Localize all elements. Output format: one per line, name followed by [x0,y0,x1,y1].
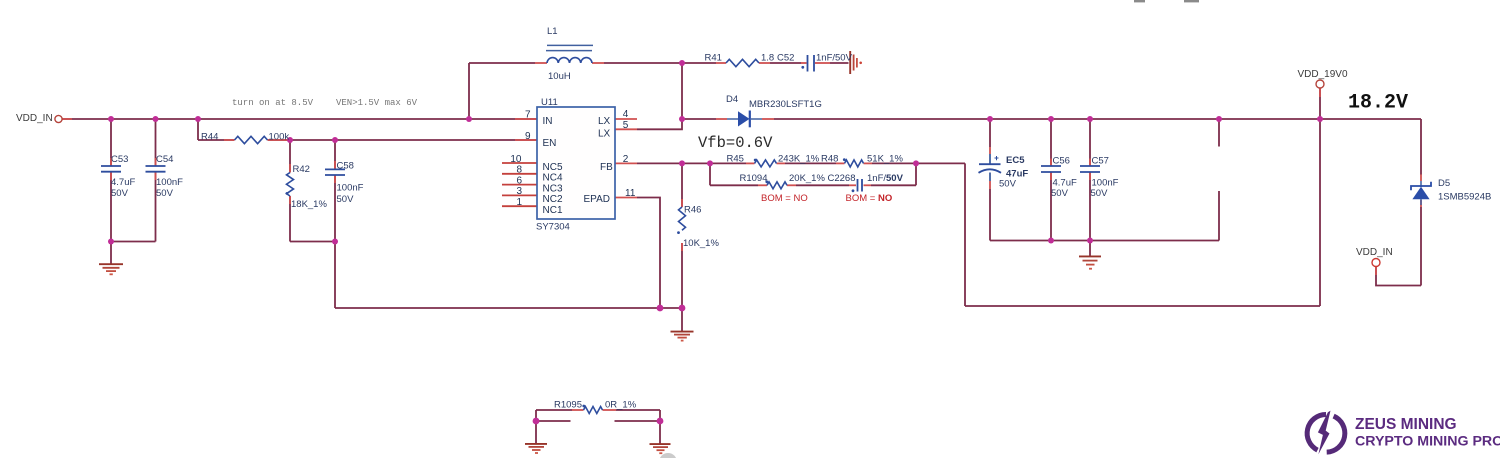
svg-text:Vfb=0.6V: Vfb=0.6V [698,134,773,152]
capacitor C52 (vertical plates) [807,55,809,72]
svg-text:R42: R42 [293,164,310,175]
diode D4 cathode bar [749,111,751,128]
svg-text:18.2V: 18.2V [1348,92,1408,115]
pin 9 EN stub [515,139,537,141]
wire output bottom rail [990,240,1219,242]
pin 3 NC2 stub [502,194,537,196]
wire C54 bottom lead [155,172,157,242]
resistor R1094 [767,182,787,189]
wire LX node to D4 anode [682,118,716,120]
wire feedback bottom run [965,305,1320,307]
svg-text:R44: R44 [201,132,218,143]
pin 10 NC5 stub [502,162,537,164]
wire C53-C54 bottom join [111,241,156,243]
svg-text:18K_1%: 18K_1% [291,199,327,210]
svg-text:7: 7 [525,110,531,121]
C57 lead stubs [1089,159,1091,166]
wire EPAD net horizontal [335,307,682,309]
svg-text:50V: 50V [111,188,129,199]
wire feedback drop [964,163,966,306]
R46 lead stubs [681,199,683,207]
R44 lead stubs [224,139,235,141]
pin 6 NC3 stub [502,184,537,186]
logo lightning bolt [1318,411,1331,455]
resistor R42 (vertical) [287,173,294,197]
wire LX pin5 jog [637,119,682,129]
wire R1094 branch drop [709,163,711,185]
wire R1095 right lead [616,409,660,411]
svg-text:6: 6 [516,175,522,186]
capacitor C2268 (vertical plates) [857,179,859,192]
svg-text:IN: IN [543,116,553,127]
zener D5 body [1412,187,1429,200]
wire C2268 right lead [871,184,916,186]
L1 lead stubs [535,62,547,64]
wire R44 left lead [198,139,235,141]
svg-text:4: 4 [623,109,629,120]
svg-text:11: 11 [625,188,636,199]
watermark arc bottom [659,453,677,458]
wire EC5 top lead [989,119,991,147]
op-amp? no: IC U11 SY7304 body [537,107,615,219]
D5 lead stubs [1420,175,1422,182]
svg-text:SY7304: SY7304 [536,222,570,233]
svg-text:R46: R46 [684,205,701,216]
logo Zeus Mining ring [1327,416,1345,452]
wire R1095 left lead [536,409,572,411]
svg-text:C54: C54 [156,154,173,165]
wire R44 to EN pin [268,139,538,141]
svg-text:R45: R45 [727,154,744,165]
pin-1 marker dots (blue) [286,66,855,408]
ground G3 (below C57) [1079,256,1101,268]
resistor R44 [235,136,268,143]
svg-text:8: 8 [516,165,522,176]
svg-text:R1094: R1094 [740,173,768,184]
wire L1 left [469,62,535,64]
ground G2 (below R46/EPAD net) [671,332,694,341]
wire EPAD pin run [637,198,660,309]
svg-text:BOM = NO: BOM = NO [761,193,808,204]
wire R42 top lead [289,140,291,173]
zener D5 leads [1420,181,1422,187]
svg-text:VDD_IN: VDD_IN [1356,247,1393,258]
svg-text:50V: 50V [999,179,1017,190]
R1095 lead stubs [572,409,584,411]
svg-text:0R_1%: 0R_1% [605,400,637,411]
wire main input rail VDD_IN to IC pin IN [62,118,537,120]
svg-text:1: 1 [516,197,522,208]
svg-text:4.7uF: 4.7uF [111,177,135,188]
EC5 polarity mark [995,157,999,159]
svg-text:EPAD: EPAD [584,194,611,205]
wire C54 top lead [155,119,157,166]
wire right gnd stub [615,420,661,422]
svg-text:50V: 50V [1051,188,1069,199]
svg-text:EN: EN [543,138,557,149]
wire ground stem mid [681,308,683,332]
svg-text:LX: LX [598,116,611,127]
ground G4 (R1095 left) [525,444,547,453]
wire R1095 left drop [535,410,537,444]
resistor R1095 [584,407,603,414]
svg-text:9: 9 [525,131,531,142]
D4 lead stubs [716,118,727,120]
diode D4 body [738,111,750,126]
wire D5 to VDD_IN port [1376,267,1421,286]
svg-text:R48: R48 [821,154,838,165]
svg-text:NC3: NC3 [543,183,563,194]
wire R1094 to C2268 [796,184,849,186]
pin 8 NC4 stub [502,173,537,175]
wire C53 top lead [110,119,112,166]
svg-text:50V: 50V [156,188,174,199]
port stub top right [1319,88,1321,97]
wire R41 to C52 [770,62,801,64]
svg-text:10K_1%: 10K_1% [683,238,719,249]
wire R42 bottom to C58 [290,241,335,243]
pin 2 FB stub [615,162,637,164]
svg-text:BOM = NO: BOM = NO [846,193,893,204]
diode D4 leads [727,118,738,120]
capacitor EC5 polarized [979,163,1001,165]
wire R45 to R48 [785,162,836,164]
wire C56 bottom lead [1050,172,1052,241]
R42 lead stubs [289,164,291,173]
C52 lead stubs [801,62,807,64]
wire R46 top lead [681,163,683,207]
svg-text:VDD_IN: VDD_IN [16,113,53,124]
port stub bottom right [1375,267,1377,276]
svg-text:1.8: 1.8 [761,53,774,64]
wire C57 bottom lead [1089,172,1091,241]
svg-text:U11: U11 [541,97,558,108]
wire D5 top lead [1420,119,1422,175]
ground G5 (R1095 right) [650,444,671,453]
wire L1 right to LX node [604,62,682,64]
wire R1094 left lead [710,184,758,186]
wire rail up to L1 [468,63,470,119]
pin 4 LX stub [615,118,637,120]
wire R46 bottom lead [681,243,683,308]
svg-text:51K_1%: 51K_1% [867,154,903,165]
wire EC5 bottom lead [989,189,991,241]
wire LX node vertical [681,63,683,119]
wire VDD_19V0 port stem [1319,88,1321,119]
R45 lead stubs [746,162,755,164]
wire left gnd stub [536,420,571,422]
svg-text:NC4: NC4 [543,173,563,184]
wire C56 top lead [1050,119,1052,166]
svg-text:turn on at 8.5V: turn on at 8.5V [232,98,314,108]
C53 lead stubs [110,158,112,165]
pin 11 EPAD stub [615,197,637,199]
wire C52 to earth [830,62,849,64]
R1094 lead stubs [758,184,767,186]
inductor L1 core bars [547,44,593,46]
svg-text:EC5: EC5 [1006,155,1025,166]
wire C58 top lead [334,140,336,169]
wire C57 top lead [1089,119,1091,166]
svg-text:C52: C52 [777,53,794,64]
svg-text:LX: LX [598,128,611,139]
resistor R46 (vertical) [679,207,686,230]
wire rail drop to R44 [197,119,199,140]
svg-text:50V: 50V [337,194,355,205]
C54 lead stubs [155,158,157,165]
wire D4 cathode to output rail [774,118,1421,120]
capacitor C57 [1080,165,1100,167]
svg-text:2: 2 [623,154,629,165]
svg-text:C58: C58 [337,161,354,172]
capacitor C58 [325,168,345,170]
svg-text:NC2: NC2 [543,194,563,205]
port VDD_19V0 circle [1316,80,1324,88]
svg-text:D5: D5 [1438,178,1450,189]
svg-text:1SMB5924B: 1SMB5924B [1438,192,1491,203]
svg-text:ZEUS MINING: ZEUS MINING [1355,416,1457,433]
wire ground stem right [1089,241,1091,257]
wire C58 bottom to EPAD net [334,175,336,308]
inductor L1 coil [547,58,592,63]
pin 5 LX stub [615,128,637,130]
resistor R45 [755,160,777,167]
svg-text:R1095: R1095 [554,400,582,411]
svg-text:MBR230LSFT1G: MBR230LSFT1G [749,99,822,110]
svg-text:C2268: C2268 [828,173,856,184]
resistor R48 [845,160,864,167]
svg-text:3: 3 [516,186,522,197]
wire stub lower at node [1218,191,1220,241]
C58 lead stubs [334,161,336,169]
svg-text:D4: D4 [726,94,738,105]
svg-text:VEN>1.5V max 6V: VEN>1.5V max 6V [336,98,418,108]
pin 7 IN stub [515,118,537,120]
svg-text:FB: FB [600,162,613,173]
svg-text:4.7uF: 4.7uF [1053,178,1077,189]
wire FB pin to divider [637,162,746,164]
port VDD_IN left circle [55,115,62,122]
svg-text:C56: C56 [1053,156,1070,167]
svg-text:VDD_19V0: VDD_19V0 [1298,69,1348,80]
wire stub upper at node [1218,119,1220,147]
resistor R41 [726,59,759,66]
svg-text:50V: 50V [1091,188,1109,199]
svg-text:L1: L1 [547,26,558,37]
svg-text:100k: 100k [269,132,290,143]
svg-text:100nF: 100nF [337,183,364,194]
C56 lead stubs [1050,159,1052,166]
port stub left [62,118,72,120]
wire R1094 row rise [915,163,917,185]
svg-text:C57: C57 [1092,156,1109,167]
wire R1095 right drop [659,410,661,444]
earth ground at C52 (sideways) [850,51,862,74]
pin 1 NC1 stub [502,205,537,207]
svg-text:5: 5 [623,120,629,131]
wire C53 bottom lead [110,172,112,242]
capacitor C56 [1041,165,1061,167]
svg-text:10uH: 10uH [548,71,571,82]
svg-text:CRYPTO MINING PRO: CRYPTO MINING PRO [1355,434,1500,450]
svg-text:243K_1%: 243K_1% [778,154,820,165]
R41 lead stubs [716,62,726,64]
port VDD_IN right circle [1372,259,1380,267]
EC5 component pins (blue) [989,154,991,164]
wire ground stem left [110,242,112,265]
svg-text:1nF/50V: 1nF/50V [867,173,904,184]
svg-text:1nF/50V: 1nF/50V [816,53,853,64]
R48 lead stubs [836,162,845,164]
svg-text:100nF: 100nF [156,177,183,188]
wire R42 bottom lead [289,196,291,242]
C2268 lead stubs [849,184,856,186]
capacitor C53 [101,165,121,167]
wire D5 bottom lead [1420,207,1422,286]
wire feedback rise to output rail [1319,119,1321,306]
svg-text:20K_1%: 20K_1% [789,173,825,184]
capacitor C54 [146,165,166,167]
svg-text:C53: C53 [111,154,128,165]
svg-text:100nF: 100nF [1092,178,1119,189]
wire R41 left lead [682,62,716,64]
svg-text:NC1: NC1 [543,205,563,216]
ground G1 (left, below C53/C54) [99,264,123,274]
cropped text remnants top edge [1134,0,1145,2]
EC5 lead stubs [989,147,991,154]
wire R48 right to corner [872,162,965,164]
svg-text:10: 10 [510,154,522,165]
zener D5 cathode bar with hooks [1411,182,1431,191]
svg-text:NC5: NC5 [543,162,563,173]
svg-text:R41: R41 [705,53,722,64]
